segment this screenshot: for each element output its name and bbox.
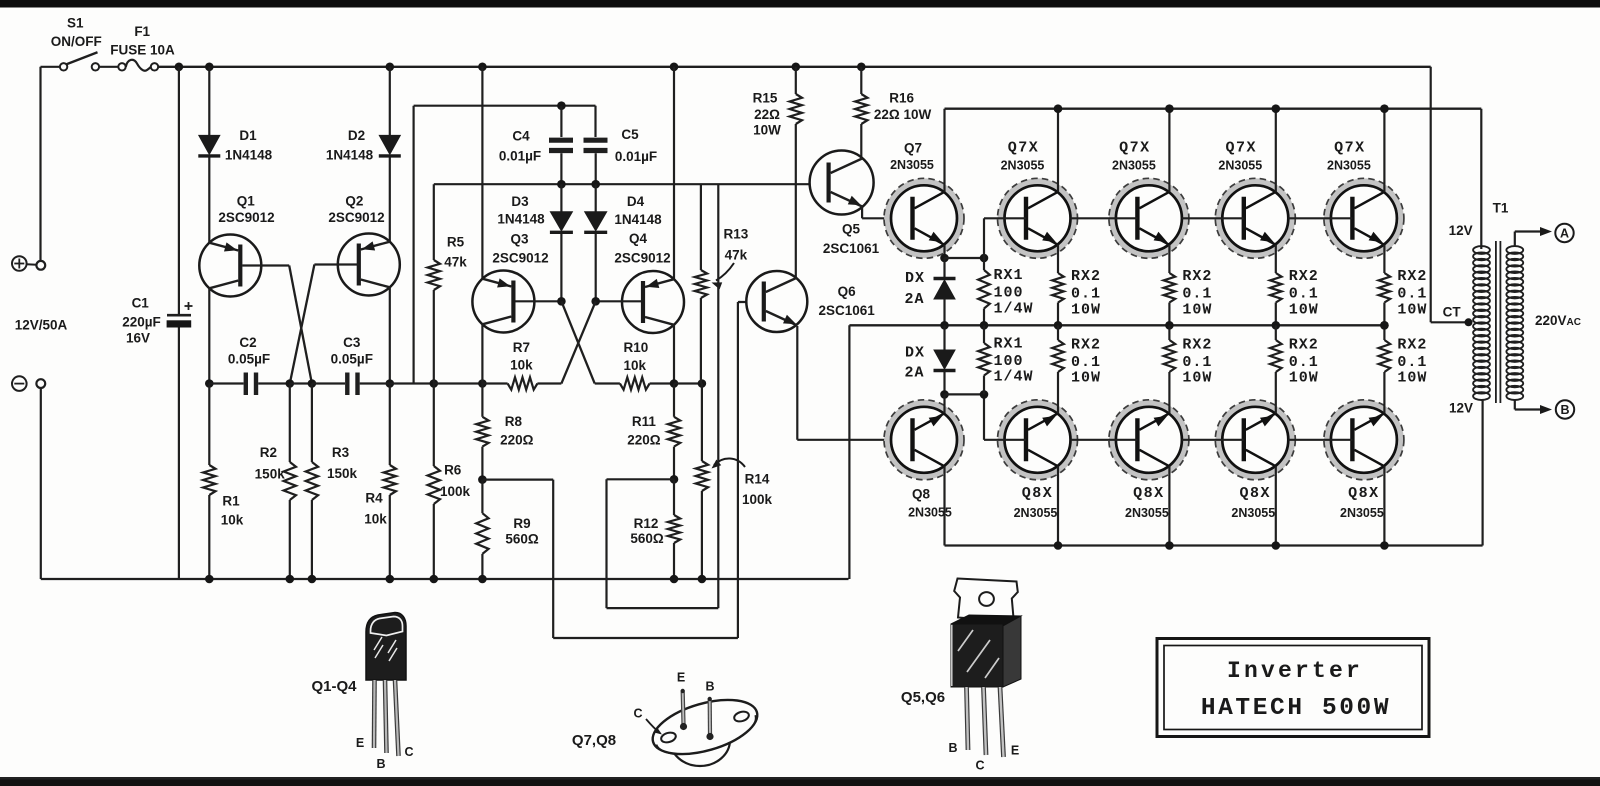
wire Q6 base (739, 301, 763, 303)
wire Q2 base to C2 node (cross) (290, 265, 315, 384)
battery negative terminal (12, 376, 27, 391)
transistor Q6 (746, 271, 807, 332)
package drawing Q5,Q6 (TO-220) (954, 579, 1018, 622)
wire rail to transformer primary bottom (1481, 400, 1483, 546)
svg-text:150k: 150k (327, 466, 358, 481)
junction R14/ground (698, 575, 707, 584)
wire lower collector rail (945, 544, 1483, 546)
svg-text:Q1: Q1 (237, 194, 256, 209)
wire C5 top drop (594, 106, 596, 137)
junction collector rail #4 (1380, 104, 1389, 113)
svg-text:22Ω 10W: 22Ω 10W (874, 107, 932, 122)
wire Q7 collector (943, 109, 945, 192)
junction collector rail #1 (1054, 104, 1063, 113)
resistor RX2 upper #2 (1164, 273, 1176, 303)
wire Q2 node to R5 line (390, 382, 434, 384)
svg-text:R4: R4 (365, 491, 383, 506)
wire lower DX lead (943, 325, 945, 350)
wire battery negative to ground bus (40, 388, 42, 579)
wire D1 to Q1 emitter (208, 158, 210, 244)
pointer arrow R13 (716, 263, 734, 281)
svg-text:10W: 10W (1071, 370, 1101, 387)
svg-text:10W: 10W (1289, 370, 1319, 387)
resistor R5 (433, 184, 435, 260)
wire Q7X#1 collector (1057, 109, 1059, 192)
svg-text:R11: R11 (632, 414, 657, 429)
wire R11/R12 node to drive loop (607, 478, 675, 480)
junction R16/bus (857, 63, 866, 72)
transistor Q8X #3 (1219, 403, 1292, 476)
junction C5/drive (591, 180, 600, 189)
svg-text:2N3055: 2N3055 (890, 158, 934, 172)
svg-text:R16: R16 (889, 91, 914, 106)
transistor Q8X #1 (1001, 403, 1074, 476)
wire Q7X#4 collector (1383, 109, 1385, 192)
svg-text:12V/50A: 12V/50A (15, 318, 68, 333)
wire bus to D2 (389, 67, 391, 136)
junction lower rail #1 (1054, 541, 1063, 550)
svg-text:560Ω: 560Ω (505, 532, 539, 547)
junction C4/drive (557, 180, 566, 189)
junction DX upper/middle rail (940, 321, 949, 330)
svg-text:220Ω: 220Ω (627, 433, 661, 448)
junction Q3/R8 node (478, 379, 487, 388)
junction lower rail #4 (1380, 541, 1389, 550)
junction R1/ground (205, 575, 214, 584)
svg-text:10W: 10W (1289, 302, 1319, 319)
svg-text:Q5,Q6: Q5,Q6 (901, 689, 945, 706)
transistor Q4 (622, 271, 684, 333)
svg-text:Q7,Q8: Q7,Q8 (572, 732, 616, 749)
wire node to R4 (389, 384, 391, 466)
svg-text:FUSE 10A: FUSE 10A (110, 43, 175, 58)
svg-text:R10: R10 (624, 340, 649, 355)
junction R2 node (286, 379, 295, 388)
wire Q8X#2 collector (1168, 466, 1170, 545)
svg-text:RX2: RX2 (1182, 268, 1212, 285)
battery positive terminal (12, 256, 27, 271)
wire R1 to ground bus (208, 495, 210, 579)
wire R2-R3 node (290, 382, 312, 384)
svg-text:S1: S1 (67, 16, 84, 31)
wire upper link (945, 257, 985, 259)
wire lower base rail seg2 (1071, 439, 1138, 441)
resistor RX1 upper (983, 258, 985, 270)
svg-text:1/4W: 1/4W (994, 369, 1034, 386)
svg-text:Q7X: Q7X (1334, 140, 1366, 157)
svg-text:Q8X: Q8X (1022, 485, 1054, 502)
resistor RX2 lower #4 (1383, 325, 1385, 340)
svg-text:B: B (376, 757, 385, 771)
svg-text:100: 100 (994, 285, 1024, 302)
svg-text:Q1-Q4: Q1-Q4 (311, 678, 357, 695)
wire Q7X#2 emitter (1168, 245, 1170, 273)
junction D2/bus (386, 63, 395, 72)
resistor RX2 lower #1 (1057, 325, 1059, 340)
wire bus to Q3 emitter (481, 67, 483, 279)
svg-text:Q8X: Q8X (1240, 485, 1272, 502)
svg-text:2SC1061: 2SC1061 (823, 241, 880, 256)
wire C1 node to C2 (209, 382, 243, 384)
svg-text:HATECH 500W: HATECH 500W (1201, 695, 1391, 722)
svg-text:C: C (404, 745, 413, 759)
resistor R12 (673, 479, 675, 515)
junction R15/bus (792, 63, 801, 72)
capacitor C2 (244, 373, 248, 396)
svg-text:Q5: Q5 (842, 222, 861, 237)
svg-text:2A: 2A (904, 291, 924, 308)
svg-text:B: B (705, 680, 714, 694)
resistor RX1 lower (983, 325, 985, 343)
resistor R2 (289, 384, 291, 463)
resistor R11 (673, 384, 675, 417)
switch S1 (60, 63, 67, 70)
svg-text:10W: 10W (1397, 302, 1427, 319)
svg-text:10W: 10W (753, 123, 781, 138)
svg-text:RX1: RX1 (994, 336, 1024, 353)
svg-text:R9: R9 (513, 516, 530, 531)
svg-text:0.01µF: 0.01µF (615, 149, 657, 164)
svg-text:1/4W: 1/4W (994, 301, 1034, 318)
wire Q5 emitter to Q7 base (861, 208, 863, 219)
resistor R13 (700, 184, 702, 270)
wire bus to D1 (208, 67, 210, 136)
junction R11/R12 node (670, 475, 679, 484)
wire Q4 node to R13 node (674, 382, 702, 384)
transistor Q7X #3 (1219, 182, 1292, 255)
top black border bar (0, 0, 1600, 8)
wire drive to D4 (595, 184, 597, 212)
wire top-loop drop (413, 106, 415, 384)
wire RX1 node to upper base rail (983, 218, 985, 258)
capacitor C1 (167, 314, 191, 317)
svg-text:B: B (1560, 403, 1569, 417)
junction Q3 base node (557, 297, 566, 306)
junction RX2 upper #4/middle rail (1380, 321, 1389, 330)
junction R12/ground (670, 575, 679, 584)
svg-text:R1: R1 (222, 494, 240, 509)
svg-text:0.1: 0.1 (1289, 354, 1319, 371)
junction R9/ground (478, 575, 487, 584)
svg-text:Q8X: Q8X (1133, 485, 1165, 502)
junction collector rail #3 (1272, 104, 1281, 113)
svg-text:12V: 12V (1449, 223, 1473, 238)
transistor Q8X #4 (1327, 403, 1400, 476)
svg-text:RX1: RX1 (994, 267, 1024, 284)
svg-text:10W: 10W (1182, 370, 1212, 387)
wire Q8X#3 collector (1275, 466, 1277, 545)
junction lower rail #3 (1272, 541, 1281, 550)
svg-text:2SC9012: 2SC9012 (614, 251, 670, 266)
svg-text:Q2: Q2 (345, 194, 363, 209)
transistor Q7X #2 (1112, 182, 1185, 255)
wire upper DX lead (943, 258, 945, 277)
wire R5 node to Q3 node (434, 382, 483, 384)
capacitor C5 (584, 138, 608, 143)
diode DX upper (934, 277, 956, 280)
wire +12V top bus (158, 66, 1431, 68)
resistor R9 (481, 480, 483, 514)
junction RX1 upper/middle rail (980, 321, 989, 330)
svg-text:R14: R14 (745, 472, 770, 487)
junction R3/ground (308, 575, 317, 584)
svg-text:150k: 150k (255, 467, 286, 482)
diode D1 (199, 135, 220, 154)
transformer T1 primary winding (1473, 246, 1490, 254)
transistor Q8 (887, 403, 960, 476)
svg-text:C1: C1 (132, 296, 150, 311)
wire Q8 emitter (943, 394, 945, 413)
svg-text:2N3055: 2N3055 (1218, 159, 1262, 173)
svg-text:R7: R7 (513, 340, 530, 355)
svg-text:47k: 47k (725, 248, 748, 263)
wire R8/R9 node to Q6 base loop (482, 479, 553, 481)
svg-text:B: B (948, 741, 957, 755)
wire rail to transformer primary top (1480, 109, 1482, 249)
svg-text:D3: D3 (511, 194, 529, 209)
resistor R7 (482, 382, 507, 384)
svg-text:E: E (356, 736, 364, 750)
wire Q7 emitter (943, 245, 945, 258)
junction R3 node (308, 379, 317, 388)
capacitor C3 (345, 373, 349, 396)
resistor RX2 upper #1 (1052, 273, 1064, 303)
svg-text:10k: 10k (510, 358, 533, 373)
svg-text:16V: 16V (126, 331, 150, 346)
bottom black border bar (0, 777, 1600, 786)
svg-text:0.1: 0.1 (1397, 354, 1427, 371)
svg-text:2N3055: 2N3055 (1327, 159, 1371, 173)
svg-text:0.1: 0.1 (1071, 354, 1101, 371)
wire Q4 node to R7 (cross) (561, 301, 595, 383)
svg-text:0.1: 0.1 (1071, 286, 1101, 303)
wire Q2 base (314, 263, 358, 265)
svg-text:RX2: RX2 (1071, 337, 1101, 354)
svg-text:R5: R5 (447, 235, 465, 250)
junction RX1 upper link (980, 254, 989, 263)
svg-text:220µF: 220µF (122, 315, 161, 330)
junction R5 node (430, 379, 439, 388)
fuse F1 (118, 63, 125, 70)
svg-text:D4: D4 (627, 194, 645, 209)
svg-text:R15: R15 (753, 91, 778, 106)
wire C4/C5 top link (414, 105, 596, 107)
wire C5 bottom (595, 153, 597, 184)
svg-text:DX: DX (905, 345, 925, 362)
resistor R14 (701, 384, 703, 462)
svg-text:10k: 10k (624, 358, 647, 373)
wire node to R1 (208, 384, 210, 466)
svg-text:Inverter: Inverter (1227, 658, 1363, 684)
junction RX1 lower link (980, 390, 989, 399)
svg-text:2N3055: 2N3055 (1001, 159, 1045, 173)
wire Q7X#4 emitter (1383, 245, 1385, 273)
svg-text:220V: 220V (1535, 313, 1567, 328)
wire drive line (434, 183, 829, 185)
svg-text:F1: F1 (134, 24, 150, 39)
transistor Q3 (472, 271, 534, 333)
svg-text:100: 100 (994, 353, 1024, 370)
junction R10/Q4 node (670, 379, 679, 388)
svg-text:0.1: 0.1 (1182, 286, 1212, 303)
wire D4 to Q4 base node (595, 234, 597, 301)
svg-text:10W: 10W (1182, 302, 1212, 319)
svg-text:100k: 100k (440, 484, 471, 499)
diode D4 (585, 212, 607, 231)
wire upper base rail seg3 (1182, 217, 1244, 219)
svg-text:E: E (677, 671, 685, 685)
svg-text:C2: C2 (239, 335, 256, 350)
wire C2 to R2 node (258, 382, 290, 384)
junction R6/ground (430, 575, 439, 584)
junction Q4 line/bus (670, 63, 679, 72)
wire upper collector rail (945, 108, 1482, 110)
junction RX2 upper #2/middle rail (1165, 321, 1174, 330)
junction DX lower link (940, 390, 949, 399)
svg-text:E: E (1011, 744, 1019, 758)
wire middle rail to ground bus (848, 325, 850, 579)
junction CT (1465, 318, 1473, 326)
svg-text:RX2: RX2 (1182, 337, 1212, 354)
transistor Q7X #4 (1327, 182, 1400, 255)
transformer T1 secondary winding (1506, 246, 1523, 254)
pointer arrow R14 (714, 458, 745, 467)
wire Q8X#4 collector (1383, 466, 1385, 545)
svg-text:Q7X: Q7X (1119, 140, 1151, 157)
svg-text:Q8: Q8 (912, 487, 931, 502)
wire D3 to Q3 base node (560, 234, 562, 301)
diode D2 (379, 135, 400, 154)
svg-text:1N4148: 1N4148 (614, 212, 662, 227)
resistor R6 (433, 384, 435, 467)
svg-text:10k: 10k (221, 513, 244, 528)
svg-text:Q7X: Q7X (1226, 140, 1258, 157)
wire secondary to A (1514, 232, 1516, 247)
svg-text:C3: C3 (343, 335, 361, 350)
svg-text:2N3055: 2N3055 (1125, 506, 1169, 520)
svg-text:Q3: Q3 (510, 232, 529, 247)
terminal A (1555, 224, 1573, 242)
svg-text:D1: D1 (239, 128, 257, 143)
transistor Q7 (887, 182, 960, 255)
wire Q2 collector down (389, 287, 391, 384)
wire Q3 node to R10 (cross) (561, 301, 594, 383)
wire switch to fuse (99, 66, 118, 68)
wire middle rail (849, 324, 1384, 326)
package drawing Q7,Q8 (TO-3) (670, 714, 730, 766)
transistor Q1 (199, 235, 261, 297)
svg-text:100k: 100k (742, 492, 773, 507)
svg-text:R12: R12 (634, 516, 659, 531)
wire Q8X#1 collector (1057, 466, 1059, 545)
wire Q3 base (515, 300, 561, 302)
svg-text:Q8X: Q8X (1348, 485, 1380, 502)
junction middle rail end (1380, 321, 1389, 330)
svg-text:Q6: Q6 (838, 284, 857, 299)
wire D2 to Q2 emitter (389, 158, 391, 243)
wire lower DX to link (943, 372, 945, 395)
wire Q1 collector down (208, 288, 210, 384)
svg-text:2SC9012: 2SC9012 (492, 251, 548, 266)
svg-text:0.1: 0.1 (1182, 354, 1212, 371)
wire upper DX to middle rail (943, 299, 945, 325)
svg-text:C4: C4 (512, 129, 530, 144)
svg-text:C: C (633, 707, 642, 721)
svg-text:RX2: RX2 (1397, 268, 1427, 285)
junction R13/R14 node (698, 379, 707, 388)
junction DX upper link (940, 254, 949, 263)
svg-text:0.1: 0.1 (1289, 286, 1319, 303)
capacitor C4 (549, 138, 573, 143)
svg-text:R8: R8 (505, 414, 523, 429)
wire drive to D3 (560, 184, 562, 212)
resistor RX2 lower #3 (1275, 325, 1277, 340)
svg-text:RX2: RX2 (1289, 268, 1319, 285)
wire C3 to Q2 node (360, 382, 390, 384)
wire upper base rail seg2 (1071, 217, 1138, 219)
wire lower link (945, 393, 985, 395)
transistor Q5 (810, 151, 874, 215)
junction Q4 base node (591, 297, 600, 306)
wire battery positive to switch (39, 67, 41, 261)
junction Q1/C2 node (205, 379, 214, 388)
wire lower base rail seg3 (1182, 439, 1244, 441)
svg-text:1N4148: 1N4148 (225, 148, 273, 163)
svg-text:RX2: RX2 (1071, 268, 1101, 285)
resistor R8 (481, 384, 483, 417)
wire C1 to ground bus (178, 328, 180, 580)
wire Q7X#3 emitter (1275, 245, 1277, 273)
junction collector rail #2 (1165, 104, 1174, 113)
svg-text:12V: 12V (1449, 401, 1473, 416)
junction R8/R9 node (478, 475, 487, 484)
transistor Q8X #2 (1112, 403, 1185, 476)
wire R3 node to C3 (312, 382, 345, 384)
transformer T1 core (1495, 241, 1497, 403)
transistor Q7X #1 (1001, 182, 1074, 255)
svg-text:0.1: 0.1 (1397, 286, 1427, 303)
wire bus to CT (1430, 67, 1432, 322)
svg-text:ON/OFF: ON/OFF (51, 34, 102, 49)
svg-text:D2: D2 (348, 128, 365, 143)
junction RX2 upper #1/middle rail (1054, 321, 1063, 330)
svg-text:10k: 10k (364, 512, 387, 527)
resistor R10 (595, 382, 620, 384)
terminal B (1556, 400, 1574, 418)
svg-text:1N4148: 1N4148 (497, 212, 545, 227)
svg-text:0.01µF: 0.01µF (499, 149, 541, 164)
svg-text:C5: C5 (621, 127, 639, 142)
svg-text:2N3055: 2N3055 (1014, 506, 1058, 520)
wire Q1 base to C3 node (cross) (289, 266, 312, 384)
resistor RX2 lower #2 (1168, 325, 1170, 340)
svg-text:Q7X: Q7X (1008, 140, 1040, 157)
wire bus to C1 (178, 67, 180, 314)
svg-text:2SC9012: 2SC9012 (218, 210, 274, 225)
junction lower rail #2 (1165, 541, 1174, 550)
junction C4 top (557, 101, 566, 110)
svg-text:0.05µF: 0.05µF (228, 352, 270, 367)
svg-text:R3: R3 (332, 445, 350, 460)
svg-text:2SC9012: 2SC9012 (328, 210, 384, 225)
svg-text:10W: 10W (1397, 370, 1427, 387)
svg-text:DX: DX (905, 270, 925, 287)
svg-text:Q4: Q4 (629, 231, 648, 246)
svg-text:2N3055: 2N3055 (1231, 506, 1275, 520)
wire secondary to B (1514, 400, 1516, 410)
wire Q8 collector (943, 466, 945, 545)
svg-text:220Ω: 220Ω (500, 433, 534, 448)
